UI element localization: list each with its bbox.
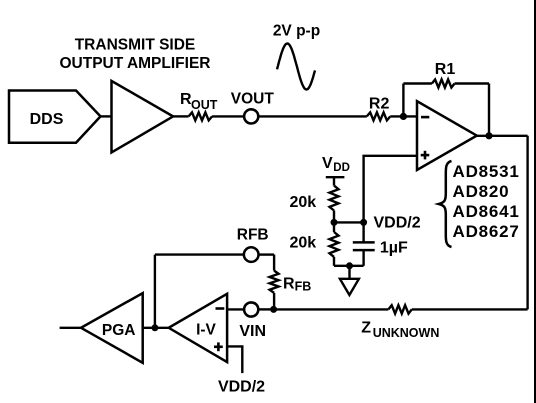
- svg-text:FB: FB: [295, 279, 312, 293]
- op-amp U1 minus sign: [421, 116, 429, 119]
- wire VIN node to VIN circle: [258, 308, 273, 310]
- svg-text:RFB: RFB: [237, 226, 269, 243]
- svg-text:R2: R2: [369, 95, 390, 112]
- wire ground stub: [348, 266, 350, 279]
- wire VIN circle to I-V inverting input: [227, 308, 244, 310]
- ground: [340, 279, 359, 295]
- resistor R1: [432, 80, 455, 88]
- wire R2 to op-amp inverting input: [390, 115, 417, 117]
- svg-text:AD8531: AD8531: [453, 162, 520, 181]
- node junction at inverting input: [400, 113, 407, 120]
- wire amplifier to ROUT: [173, 115, 189, 117]
- resistor R2: [367, 112, 391, 120]
- svg-text:20k: 20k: [290, 234, 317, 251]
- supply VDD bar: [326, 176, 345, 178]
- resistor 20k upper: [330, 186, 339, 211]
- svg-text:AD8641: AD8641: [453, 202, 520, 221]
- capacitor C1 plates: [353, 241, 375, 244]
- node VIN terminal circle: [244, 302, 258, 316]
- node RFB terminal circle: [244, 247, 259, 262]
- svg-text:DDS: DDS: [30, 111, 64, 128]
- resistor ROUT: [189, 112, 213, 120]
- wire output loop bottom right segment: [412, 308, 528, 310]
- wire op-amp noninverting input: [364, 156, 417, 223]
- label ROUT: [180, 91, 218, 112]
- wire DDS to amplifier: [101, 115, 112, 117]
- wire RFB top to terminal: [259, 253, 275, 255]
- svg-text:VIN: VIN: [239, 323, 266, 340]
- wire 20k lower to bottom rail: [333, 257, 335, 266]
- wire VDD bar to resistor: [333, 177, 335, 185]
- wire RFB terminal to feedback corner: [155, 253, 244, 255]
- label RFB value: [283, 276, 311, 294]
- wire divider to cap node: [334, 221, 364, 223]
- wire I-V noninverting input: [227, 346, 242, 373]
- I-V converter amplifier: [169, 294, 227, 362]
- svg-text:PGA: PGA: [102, 322, 136, 339]
- title label TRANSMIT SIDE OUTPUT AMPLIFIER: [60, 37, 211, 73]
- wire feedback down to PGA node: [154, 255, 156, 328]
- node bottom rail junction: [346, 262, 353, 269]
- op-amp U1 plus sign: [421, 154, 430, 157]
- wire feedback top right segment: [455, 82, 489, 84]
- node VOUT terminal circle: [244, 109, 258, 123]
- wire feedback top left segment: [403, 82, 432, 84]
- wire feedback down to output: [488, 84, 490, 136]
- svg-text:AD8627: AD8627: [453, 222, 520, 241]
- wire ZUNKNOWN to VIN node: [274, 308, 389, 310]
- node VIN junction: [270, 306, 277, 313]
- node junction PGA I-V: [151, 324, 158, 331]
- wire op-amp output: [477, 135, 528, 137]
- wire to VDD/2 node: [333, 211, 335, 233]
- svg-text:R1: R1: [435, 61, 456, 78]
- svg-text:UNKNOWN: UNKNOWN: [373, 326, 440, 340]
- border frame right edge: [534, 0, 536, 403]
- node VDD/2 junction: [360, 219, 367, 226]
- svg-text:VDD/2: VDD/2: [374, 215, 421, 232]
- svg-text:I-V: I-V: [196, 321, 216, 338]
- capacitor C1 top lead: [362, 222, 364, 242]
- svg-text:AD820: AD820: [453, 182, 510, 201]
- svg-text:V: V: [322, 155, 333, 172]
- svg-text:Z: Z: [361, 319, 371, 336]
- wire PGA output stub: [60, 327, 81, 329]
- wire output loop right vertical: [526, 136, 528, 310]
- svg-text:R: R: [283, 276, 295, 293]
- wire ROUT to VOUT node: [212, 115, 244, 117]
- brace for op-amp part list: [439, 161, 452, 247]
- capacitor C1 bottom lead: [362, 250, 364, 266]
- svg-text:2V p-p: 2V p-p: [273, 22, 320, 39]
- wire PGA to I-V: [143, 327, 169, 329]
- node output junction: [485, 132, 492, 139]
- svg-text:1µF: 1µF: [380, 239, 408, 256]
- wire bottom rail: [334, 265, 364, 267]
- svg-text:20k: 20k: [290, 194, 317, 211]
- svg-text:TRANSMIT SIDE: TRANSMIT SIDE: [75, 37, 196, 54]
- node divider junction: [331, 219, 338, 226]
- DDS block: [9, 91, 101, 143]
- wire feedback up from junction: [402, 84, 404, 117]
- I-V plus sign: [214, 345, 223, 348]
- svg-text:VDD/2: VDD/2: [218, 379, 265, 396]
- svg-text:DD: DD: [333, 162, 350, 174]
- op-amp U1: [417, 101, 477, 170]
- resistor ZUNKNOWN: [388, 305, 411, 313]
- resistor 20k lower: [330, 232, 339, 257]
- supply VDD label: [322, 155, 350, 174]
- transmit amplifier A1: [112, 81, 174, 153]
- svg-text:OUT: OUT: [191, 98, 218, 112]
- svg-text:OUTPUT AMPLIFIER: OUTPUT AMPLIFIER: [60, 55, 211, 72]
- resistor RFB vertical: [273, 293, 275, 310]
- svg-text:VOUT: VOUT: [231, 91, 275, 108]
- I-V minus sign: [216, 307, 225, 310]
- label ZUNKNOWN: [361, 319, 439, 339]
- wire VOUT to R2: [258, 115, 367, 117]
- waveform 2V p-p sine symbol: [277, 44, 315, 90]
- PGA amplifier: [81, 293, 143, 363]
